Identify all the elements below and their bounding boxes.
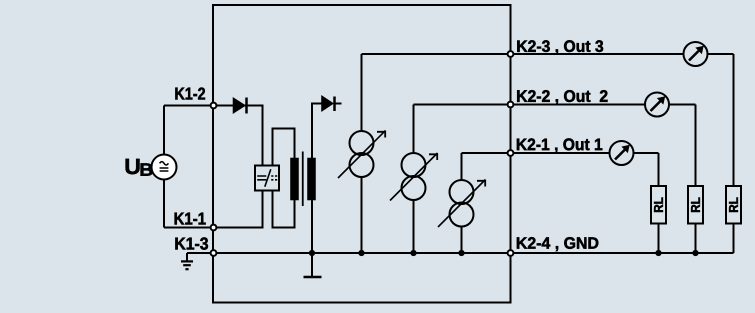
current source I3 <box>438 180 486 228</box>
wire current source I3 top <box>461 153 463 180</box>
junction dot transformer secondary / rail <box>309 250 315 256</box>
ammeter P1 <box>610 141 634 165</box>
ammeter P3 <box>684 42 708 66</box>
label K2-2 <box>517 90 607 104</box>
junction dot I2 / rail <box>410 250 416 256</box>
wire load RL1 vertical <box>658 153 660 253</box>
terminal K1-1 <box>211 225 217 231</box>
junction dot RL1 / rail <box>655 250 661 256</box>
current source I1 <box>338 131 386 179</box>
wire UB left lower <box>163 180 165 228</box>
wire converter left bottom pin to K1-1 <box>214 191 263 228</box>
wire UB bottom (source to K1-1) <box>164 227 214 229</box>
diode D1 <box>233 98 247 114</box>
terminal K2-3 <box>508 51 514 57</box>
label UB <box>126 159 140 174</box>
wire transformer secondary bottom to ground rail <box>311 200 313 253</box>
wire current source I2 bottom <box>413 200 415 253</box>
converter U1 box <box>255 166 279 191</box>
transformer T1 primary winding <box>291 158 299 200</box>
terminal K2-2 <box>508 102 514 108</box>
wire transformer primary bottom to converter right bottom pin <box>273 191 295 228</box>
wire ground stem <box>186 253 188 261</box>
junction dot I3 / rail <box>458 250 464 256</box>
terminal K1-2 <box>211 103 217 109</box>
terminal K2-1 <box>508 150 514 156</box>
junction dot RL2 / rail <box>692 250 698 256</box>
terminal K2-4 <box>508 250 514 256</box>
transformer T1 secondary winding <box>308 158 316 200</box>
wire K2-1 output line <box>462 152 659 154</box>
wire transformer secondary top to diode D2 <box>312 104 322 159</box>
wire current source I1 bottom <box>361 177 363 253</box>
current source I2 <box>390 153 438 201</box>
label K2-4 <box>517 237 598 251</box>
transformer T1 core <box>302 152 304 207</box>
wire UB top (source to K1-2) <box>164 105 214 107</box>
wire K1-2 to diode D1 and corner <box>214 106 263 166</box>
resistor RL1 <box>651 186 666 224</box>
wire diode D2 cathode stub <box>334 103 342 105</box>
wire load RL3 vertical <box>733 54 735 253</box>
wire current source I3 bottom <box>461 227 463 254</box>
terminal K1-3 <box>211 250 217 256</box>
wire current source I2 top <box>413 105 415 154</box>
resistor RL3 <box>726 186 741 224</box>
wire UB left upper <box>163 106 165 155</box>
ground symbol <box>181 261 193 269</box>
resistor RL2 <box>688 186 703 224</box>
ammeter P2 <box>645 93 669 117</box>
wire converter right top pin to transformer primary <box>273 129 295 166</box>
label K2-1 <box>517 138 602 152</box>
device box <box>213 5 511 303</box>
voltage source UB <box>152 155 177 180</box>
label K1-3 <box>175 237 208 249</box>
chassis bar <box>304 276 322 279</box>
wire load RL2 vertical <box>695 105 697 254</box>
junction dot I1 / rail <box>358 250 364 256</box>
wire chassis stem <box>311 253 313 276</box>
wire K2-2 output line <box>414 104 696 106</box>
label K1-1 <box>175 213 206 225</box>
wire current source I1 top <box>361 54 363 131</box>
diode D2 <box>322 96 335 112</box>
wire ground rail <box>187 252 734 254</box>
wire K2-3 output line <box>362 53 734 55</box>
label K1-2 <box>175 88 205 100</box>
label K2-3 <box>517 40 603 54</box>
